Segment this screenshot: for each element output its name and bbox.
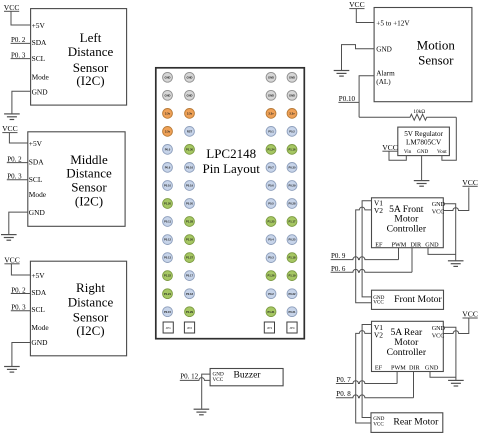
svg-text:GND: GND	[432, 325, 446, 332]
pin P0.5 (col 3 row 8)	[266, 199, 276, 209]
pin P0.21 (col 4 row 14)	[287, 307, 297, 317]
svg-text:P0.22: P0.22	[288, 292, 296, 296]
jumper JP2	[184, 322, 194, 333]
svg-text:3.3v: 3.3v	[165, 112, 171, 116]
svg-text:P0.7: P0.7	[268, 166, 274, 170]
pin P0.9 (col 1 row 6)	[163, 163, 173, 173]
svg-text:10kΩ: 10kΩ	[413, 109, 425, 115]
pin 3.3v (col 2 row 3)	[185, 109, 195, 119]
svg-text:JP3: JP3	[267, 326, 273, 330]
wire GND down (left sensor)	[12, 91, 31, 114]
svg-text:P0.0: P0.0	[165, 148, 171, 152]
svg-text:GND: GND	[31, 338, 48, 347]
wire Alarm (AL) down	[359, 76, 374, 118]
svg-text:Distance: Distance	[66, 166, 112, 181]
wire DIR to P0.6	[411, 248, 413, 273]
pin GND (col 2 row 2)	[185, 90, 195, 100]
svg-text:P1.26: P1.26	[267, 274, 275, 278]
svg-text:RST: RST	[187, 130, 193, 134]
motor M1 Front Motor box	[372, 290, 444, 309]
pin P0.19 (col 2 row 7)	[185, 181, 195, 191]
svg-text:P0.30: P0.30	[288, 166, 296, 170]
svg-text:SCL: SCL	[29, 175, 43, 184]
svg-text:P1.29: P1.29	[186, 310, 194, 314]
sensor U3 Right Distance Sensor box	[30, 261, 126, 356]
pin P0.10 (col 1 row 7)	[163, 181, 173, 191]
svg-text:P0.28: P0.28	[288, 202, 296, 206]
svg-text:SDA: SDA	[29, 158, 44, 167]
wire P0.2 to SDA (right sensor)	[11, 293, 31, 295]
svg-text:GND: GND	[187, 93, 193, 97]
wire VCC to Vin (regulator)	[389, 151, 406, 160]
pin 3.3v (col 1 row 3)	[163, 109, 173, 119]
pin P1.22 (col 1 row 12)	[163, 271, 173, 281]
pin P1.17 (col 4 row 9)	[287, 217, 297, 227]
svg-text:JP1: JP1	[166, 326, 172, 330]
ground rear controller	[448, 380, 464, 386]
pin P0.17 (col 2 row 12)	[185, 271, 195, 281]
wire rear bottom GND to ground	[430, 372, 456, 378]
svg-text:V2: V2	[374, 206, 383, 215]
svg-text:Distance: Distance	[68, 294, 114, 309]
svg-text:SCL: SCL	[32, 54, 46, 63]
svg-text:GND: GND	[268, 75, 274, 79]
ground buzzer	[194, 409, 210, 415]
pin P0.15 (col 1 row 14)	[163, 307, 173, 317]
svg-text:+5 to +12V: +5 to +12V	[376, 20, 410, 28]
svg-text:P1.27: P1.27	[186, 256, 194, 260]
pin P0.22 (col 4 row 13)	[287, 289, 297, 299]
svg-text:DIR: DIR	[410, 242, 422, 249]
svg-text:SCL: SCL	[31, 305, 45, 314]
svg-text:Motion: Motion	[417, 37, 456, 52]
pin P0.7 (col 3 row 6)	[266, 163, 276, 173]
svg-text:Right: Right	[76, 280, 105, 295]
svg-text:P0.13: P0.13	[164, 256, 172, 260]
power symbol VCC (right sensor)	[4, 255, 20, 264]
svg-text:Mode: Mode	[29, 190, 47, 199]
sensor U1 Left Distance Sensor box	[31, 9, 127, 106]
pin 3.3v (col 1 row 4)	[163, 126, 173, 136]
pin P1.18 (col 4 row 11)	[287, 253, 297, 263]
wire P0.3 to SCL (middle sensor)	[7, 179, 28, 181]
wire buzzer GND to ground	[202, 374, 210, 409]
svg-text:VCC: VCC	[373, 300, 384, 306]
svg-text:GND: GND	[187, 75, 193, 79]
svg-text:VCC: VCC	[462, 310, 478, 319]
svg-text:JP4: JP4	[289, 326, 295, 330]
pin P0.2 (col 3 row 13)	[266, 289, 276, 299]
svg-text:5V Regulator: 5V Regulator	[404, 130, 443, 138]
wire V1 to front motor GND	[362, 201, 371, 297]
sensor U5 Motion Sensor box	[374, 8, 472, 102]
pin P0.20 (col 2 row 8)	[185, 199, 195, 209]
pin GND (col 4 row 1)	[287, 72, 297, 82]
label LPC2148 Pin Layout	[202, 146, 260, 176]
pin P0.16 (col 2 row 6)	[185, 163, 195, 173]
wire P0.12 to buzzer VCC (hops over GND wire)	[180, 378, 210, 381]
controller U8 5A Rear Motor Controller box	[372, 321, 446, 371]
power symbol VCC (middle sensor)	[2, 124, 18, 133]
ground regulator	[414, 181, 430, 187]
svg-text:Front Motor: Front Motor	[394, 294, 442, 305]
ground middle sensor	[1, 235, 17, 241]
svg-text:LPC2148: LPC2148	[206, 146, 256, 161]
svg-text:P0.17: P0.17	[186, 274, 194, 278]
svg-text:GND: GND	[165, 93, 171, 97]
svg-text:P0.2: P0.2	[268, 292, 274, 296]
wire V1 to rear motor GND	[362, 325, 371, 418]
svg-text:P0.9: P0.9	[165, 166, 171, 170]
wire V2 to front motor VCC (hops over V1 wire)	[356, 207, 372, 303]
svg-text:VCC: VCC	[349, 0, 365, 9]
svg-text:P1.21: P1.21	[164, 292, 172, 296]
pin P0.28 (col 4 row 8)	[287, 199, 297, 209]
svg-text:(I2C): (I2C)	[76, 73, 104, 88]
svg-text:GND: GND	[289, 93, 295, 97]
pin P0.4 (col 3 row 10)	[266, 235, 276, 245]
wire VCC to +5V (right sensor)	[11, 264, 30, 275]
svg-text:VCC: VCC	[462, 178, 478, 187]
IC U4 LPC2148 pin layout board outline	[156, 68, 304, 339]
svg-text:P0.19: P0.19	[186, 184, 194, 188]
wire P0.8 (hops over V1 V2 wires)	[336, 395, 414, 398]
svg-text:P0. 6: P0. 6	[331, 265, 346, 273]
pin P1.19 (col 4 row 12)	[287, 271, 297, 281]
wire P0.3 to SCL (left sensor)	[11, 58, 31, 60]
svg-text:GND: GND	[32, 88, 49, 97]
pin P0.25 (col 4 row 10)	[287, 235, 297, 245]
wire GND to ground (motion sensor)	[342, 45, 375, 71]
ground motion sensor	[334, 71, 350, 77]
svg-text:P0.12: P0.12	[164, 238, 172, 242]
svg-text:Rear Motor: Rear Motor	[393, 417, 439, 428]
sensor U2 Middle Distance Sensor box	[28, 132, 125, 227]
svg-text:GND: GND	[425, 365, 439, 372]
svg-text:P0.18: P0.18	[186, 292, 194, 296]
svg-text:VCC: VCC	[4, 255, 20, 264]
wire GND down (middle sensor)	[9, 212, 28, 234]
svg-text:P1.25: P1.25	[267, 220, 275, 224]
wire front bottom GND to ground	[428, 248, 456, 255]
svg-text:+5V: +5V	[29, 139, 43, 148]
pin P0.18 (col 2 row 13)	[185, 289, 195, 299]
svg-text:P1.28: P1.28	[186, 220, 194, 224]
svg-text:Pin Layout: Pin Layout	[202, 161, 260, 176]
power symbol VCC (rear controller)	[462, 310, 478, 319]
svg-text:P0.3: P0.3	[268, 256, 274, 260]
jumper JP3	[264, 322, 274, 333]
svg-text:EF: EF	[375, 242, 383, 249]
power symbol VCC (regulator input)	[382, 143, 398, 152]
svg-text:P0.10: P0.10	[164, 184, 172, 188]
pin P0.0 (col 1 row 5)	[163, 145, 173, 155]
wire PWM to P0.9	[398, 248, 400, 260]
pin P0.11 (col 1 row 9)	[163, 217, 173, 227]
wire P0.3 to SCL (right sensor)	[11, 310, 31, 312]
svg-text:VCC: VCC	[4, 3, 20, 12]
svg-text:P1.24: P1.24	[267, 148, 275, 152]
svg-text:P0.20: P0.20	[186, 202, 194, 206]
wire resistor to Vout	[442, 117, 456, 160]
pin P1.30 (col 2 row 5)	[185, 145, 195, 155]
ground front controller	[448, 261, 464, 267]
pin GND (col 4 row 2)	[287, 90, 297, 100]
svg-text:(I2C): (I2C)	[76, 323, 104, 338]
pin P1.25 (col 3 row 9)	[266, 217, 276, 227]
wire PWM to P0.7	[396, 372, 398, 384]
svg-text:+5V: +5V	[31, 271, 45, 280]
wire VCC to +5V (middle sensor)	[9, 133, 27, 143]
svg-text:(AL): (AL)	[376, 78, 391, 86]
svg-text:3.3v: 3.3v	[187, 112, 193, 116]
wire front VCC right to VCC (hops over GND wire)	[443, 188, 469, 211]
wire VCC to +5 to +12V (motion sensor)	[356, 9, 374, 23]
motor M2 Rear Motor box	[371, 413, 443, 433]
pin P0.29 (col 4 row 7)	[287, 181, 297, 191]
svg-text:P1.20: P1.20	[164, 202, 172, 206]
pin 3.3v (col 3 row 3)	[266, 109, 276, 119]
svg-text:P1.18: P1.18	[288, 256, 296, 260]
svg-text:Mode: Mode	[32, 72, 50, 81]
svg-text:P0. 12: P0. 12	[180, 372, 198, 380]
wire P0.2 to SDA (left sensor)	[11, 42, 31, 44]
svg-text:JP2: JP2	[187, 326, 193, 330]
svg-text:Vin: Vin	[404, 149, 412, 155]
pin P1.26 (col 2 row 10)	[185, 235, 195, 245]
pin P0.3 (col 3 row 11)	[266, 253, 276, 263]
pin P1.28 (col 2 row 9)	[185, 217, 195, 227]
svg-text:P0.29: P0.29	[288, 184, 296, 188]
svg-text:PWM: PWM	[391, 365, 406, 372]
pin P1.29 (col 2 row 14)	[185, 307, 195, 317]
wire rear VCC right to VCC (hops over GND wire)	[443, 318, 469, 334]
jumper JP1	[163, 322, 173, 333]
svg-text:Alarm: Alarm	[376, 69, 395, 77]
svg-text:P0. 8: P0. 8	[336, 390, 351, 398]
pin GND (col 1 row 2)	[163, 90, 173, 100]
svg-text:3.3v: 3.3v	[268, 112, 274, 116]
regulator U6 LM7805CV box	[398, 127, 450, 156]
svg-text:P1.31: P1.31	[267, 310, 275, 314]
svg-text:VCC: VCC	[382, 143, 398, 152]
svg-text:P1.30: P1.30	[186, 148, 194, 152]
svg-text:P1.22: P1.22	[164, 274, 172, 278]
pin P0.1 (col 3 row 4)	[266, 126, 276, 136]
svg-text:GND: GND	[165, 75, 171, 79]
svg-text:EF: EF	[375, 365, 383, 372]
svg-text:SDA: SDA	[32, 38, 47, 47]
wire GND to ground (regulator)	[421, 156, 423, 181]
svg-text:P0.25: P0.25	[288, 238, 296, 242]
svg-text:P0.11: P0.11	[164, 220, 171, 224]
svg-text:P0.21: P0.21	[288, 310, 296, 314]
ground right sensor	[4, 367, 20, 373]
svg-text:P1.19: P1.19	[288, 274, 296, 278]
svg-text:P0.2: P0.2	[289, 130, 295, 134]
svg-text:V2: V2	[374, 330, 383, 339]
svg-text:Mode: Mode	[31, 323, 49, 332]
wire P0.10 stub	[338, 101, 359, 103]
svg-text:Vout: Vout	[437, 149, 447, 155]
svg-text:P0. 7: P0. 7	[336, 376, 351, 384]
svg-text:Left: Left	[80, 30, 102, 45]
pin P1.26 (col 3 row 12)	[266, 271, 276, 281]
buzzer BZ1 box	[210, 369, 283, 386]
power symbol VCC (front controller)	[462, 178, 478, 187]
svg-text:PWM: PWM	[392, 242, 407, 249]
pin P0.13 (col 1 row 11)	[163, 253, 173, 263]
wire DIR to P0.8	[413, 372, 415, 398]
pin P0.2 (col 4 row 4)	[287, 126, 297, 136]
pin P0.30 (col 4 row 6)	[287, 163, 297, 173]
svg-text:(I2C): (I2C)	[75, 193, 103, 208]
svg-text:VCC: VCC	[432, 209, 445, 216]
pin P1.20 (col 1 row 8)	[163, 199, 173, 209]
svg-text:GND: GND	[289, 75, 295, 79]
svg-text:VCC: VCC	[213, 377, 224, 383]
svg-text:P1.17: P1.17	[288, 220, 296, 224]
svg-text:VCC: VCC	[432, 332, 445, 339]
wire VCC to +5V (left sensor)	[11, 11, 31, 25]
svg-text:P0.5: P0.5	[268, 202, 274, 206]
svg-text:GND: GND	[29, 208, 46, 217]
wire V2 to rear motor VCC (hops over V1 wire)	[356, 331, 372, 423]
controller U7 5A Front Motor Controller box	[372, 198, 446, 249]
svg-text:+5V: +5V	[32, 21, 46, 30]
pin GND (col 1 row 1)	[163, 72, 173, 82]
pin P1.31 (col 3 row 14)	[266, 307, 276, 317]
svg-text:VCC: VCC	[373, 421, 384, 427]
wire GND down (right sensor)	[12, 343, 31, 367]
wire P0.6 (hops over V1 V2 wires)	[331, 269, 412, 272]
svg-text:P0.6: P0.6	[268, 184, 274, 188]
pin RST (col 2 row 4)	[185, 126, 195, 136]
svg-text:3.3v: 3.3v	[165, 130, 171, 134]
svg-text:DIR: DIR	[409, 365, 421, 372]
svg-text:Sensor: Sensor	[71, 180, 107, 195]
pin P1.16 (col 4 row 5)	[287, 145, 297, 155]
wire rear GND right to ground	[443, 327, 456, 380]
wire P0.7 (hops over V1 V2 wires)	[336, 381, 397, 384]
pin P1.27 (col 2 row 11)	[185, 253, 195, 263]
svg-text:Sensor: Sensor	[418, 52, 454, 67]
wire P0.9 (hops over V1 V2 wires)	[331, 257, 399, 260]
svg-text:GND: GND	[425, 242, 439, 249]
svg-text:P0.1: P0.1	[268, 130, 274, 134]
pin GND (col 3 row 2)	[266, 90, 276, 100]
power symbol VCC (left sensor)	[4, 3, 20, 12]
svg-text:GND: GND	[432, 201, 446, 208]
svg-text:VCC: VCC	[2, 124, 18, 133]
svg-text:P1.26: P1.26	[186, 238, 194, 242]
svg-text:SDA: SDA	[31, 288, 46, 297]
ground left sensor	[4, 114, 20, 120]
pin GND (col 2 row 1)	[185, 72, 195, 82]
svg-text:Controller: Controller	[387, 224, 427, 235]
pin P0.6 (col 3 row 7)	[266, 181, 276, 191]
pin P0.12 (col 1 row 10)	[163, 235, 173, 245]
svg-text:Controller: Controller	[387, 347, 427, 358]
svg-text:P0.4: P0.4	[268, 238, 274, 242]
svg-text:P0.15: P0.15	[164, 310, 172, 314]
svg-text:Middle: Middle	[70, 152, 108, 167]
resistor R1 10k	[359, 109, 456, 120]
pin P1.24 (col 3 row 5)	[266, 145, 276, 155]
svg-text:P0. 9: P0. 9	[331, 252, 346, 260]
svg-text:GND: GND	[268, 93, 274, 97]
wire P0.2 to SDA (middle sensor)	[7, 162, 28, 164]
power symbol VCC (motion sensor)	[349, 0, 365, 9]
pin GND (col 3 row 1)	[266, 72, 276, 82]
svg-text:3.3v: 3.3v	[289, 112, 295, 116]
svg-text:P1.16: P1.16	[288, 148, 296, 152]
svg-text:LM7805CV: LM7805CV	[406, 139, 442, 147]
svg-text:GND: GND	[417, 149, 428, 155]
svg-text:Buzzer: Buzzer	[234, 370, 262, 380]
svg-text:Distance: Distance	[68, 44, 114, 59]
svg-text:GND: GND	[376, 45, 392, 53]
svg-text:P0.16: P0.16	[186, 166, 194, 170]
wire front GND right to ground	[443, 204, 455, 261]
pin 3.3v (col 4 row 3)	[287, 109, 297, 119]
pin P1.21 (col 1 row 13)	[163, 289, 173, 299]
jumper JP4	[287, 322, 297, 333]
